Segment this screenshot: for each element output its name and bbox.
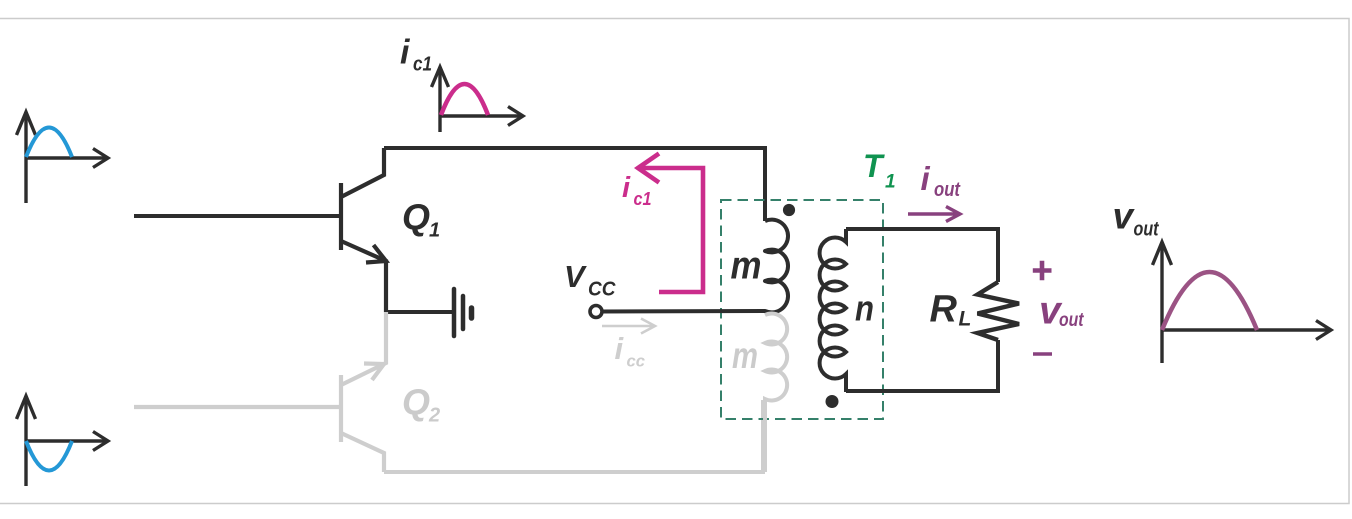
iout arrow (purple) xyxy=(908,207,960,222)
svg-text:i: i xyxy=(622,172,631,204)
ic1 half-sine pulse (pink) xyxy=(441,84,488,115)
transistor Q2 (faded) xyxy=(134,312,386,472)
vout half-sine (plum) xyxy=(1162,272,1257,330)
pink current loop arrow ic1 xyxy=(638,154,703,293)
svg-text:m: m xyxy=(732,335,758,376)
icc arrow (gray) xyxy=(602,319,655,334)
phase dot primary xyxy=(783,204,795,216)
svg-text:n: n xyxy=(855,288,874,329)
svg-text:out: out xyxy=(1059,310,1084,331)
primary winding m (black, top half) xyxy=(602,220,788,313)
svg-text:out: out xyxy=(934,179,961,201)
secondary winding n xyxy=(820,229,846,392)
wire: collector top rail xyxy=(384,148,765,221)
svg-text:L: L xyxy=(959,308,972,331)
svg-text:c1: c1 xyxy=(634,189,652,209)
wire: secondary to load (top) xyxy=(846,229,998,282)
transformer T1 dashed boundary (green) xyxy=(721,200,883,419)
vout graph axes xyxy=(1153,242,1332,363)
transistor Q1 xyxy=(341,148,386,312)
svg-text:m: m xyxy=(731,245,762,288)
svg-text:CC: CC xyxy=(588,279,616,301)
svg-text:1: 1 xyxy=(885,172,896,193)
resistor RL xyxy=(978,282,1020,340)
svg-text:1: 1 xyxy=(429,220,440,242)
svg-text:cc: cc xyxy=(627,352,646,371)
svg-text:i: i xyxy=(400,34,411,72)
svg-text:i: i xyxy=(921,160,931,197)
input signal graph (top-left): axes xyxy=(17,112,109,203)
primary winding m (gray, bottom half) xyxy=(765,314,787,472)
wire: Q2 collector bottom rail (gray) xyxy=(384,400,763,472)
input signal graph (bottom-left): axes xyxy=(17,396,109,486)
VCC terminal (open circle) xyxy=(590,306,602,318)
wire: Q1 emitter to ground xyxy=(386,310,452,314)
svg-text:2: 2 xyxy=(428,405,440,427)
svg-text:V: V xyxy=(564,259,587,294)
svg-text:Q: Q xyxy=(402,382,430,423)
svg-text:Q: Q xyxy=(402,197,430,238)
label minus (purple) xyxy=(1033,352,1052,355)
svg-text:c1: c1 xyxy=(413,54,432,76)
svg-text:T: T xyxy=(863,148,885,184)
svg-text:R: R xyxy=(930,289,958,331)
svg-text:i: i xyxy=(615,331,625,366)
ic1 graph axes xyxy=(432,67,524,132)
svg-text:out: out xyxy=(1134,219,1160,241)
ground symbol xyxy=(454,289,472,336)
phase dot secondary xyxy=(826,395,839,408)
wire: Q1 base input xyxy=(134,214,339,218)
input positive half-sine (blue) xyxy=(26,128,72,158)
input negative half-sine (blue) xyxy=(26,441,72,471)
label plus (purple) xyxy=(1033,261,1052,280)
wire: load bottom return xyxy=(846,340,998,391)
svg-text:v: v xyxy=(1113,196,1136,237)
